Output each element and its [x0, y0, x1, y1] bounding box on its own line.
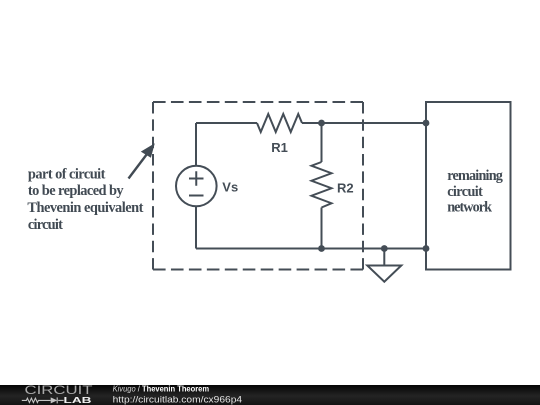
svg-text:Thevenin equivalent: Thevenin equivalent	[27, 200, 143, 216]
svg-text:remaining: remaining	[447, 168, 503, 184]
ground symbol	[367, 266, 401, 282]
svg-text:R2: R2	[337, 181, 354, 196]
voltage source Vs	[176, 166, 217, 207]
svg-text:Vs: Vs	[222, 180, 238, 195]
wire: top rail left segment to R1	[196, 122, 257, 124]
svg-text:part of circuit: part of circuit	[28, 166, 106, 182]
node: junction R2 bottom	[318, 245, 325, 252]
dashed boundary box (part of circuit to be replaced)	[153, 102, 363, 270]
wire: Vs top lead up to top rail	[195, 123, 197, 166]
resistor R1	[257, 114, 302, 132]
wire: Vs bottom lead down to bottom rail	[195, 207, 197, 249]
wire: ground stub	[383, 249, 385, 266]
node: bottom rail into network box	[423, 245, 430, 252]
annotation text: part of circuit to be replaced by Thevenin equivalent circuit	[27, 166, 143, 233]
wire: R2 bottom lead	[321, 208, 323, 249]
svg-text:Kivugo / Thevenin Theorem: Kivugo / Thevenin Theorem	[113, 385, 210, 394]
annotation arrow	[129, 143, 155, 178]
svg-text:network: network	[447, 200, 492, 216]
svg-text:http://circuitlab.com/cx966p4: http://circuitlab.com/cx966p4	[113, 394, 243, 404]
node: junction R1/R2 top	[318, 120, 325, 127]
remaining circuit network box	[426, 102, 511, 270]
node: top rail into network box	[423, 120, 430, 127]
svg-text:R1: R1	[271, 140, 288, 155]
label: remaining circuit network	[447, 168, 503, 216]
node: ground junction	[381, 245, 388, 252]
svg-text:LAB: LAB	[64, 395, 92, 405]
wire: top rail right segment to remaining network	[302, 122, 426, 124]
wire: bottom rail	[196, 248, 426, 250]
svg-text:circuit: circuit	[447, 184, 483, 200]
resistor R2	[312, 162, 332, 208]
footer bar	[0, 385, 540, 405]
svg-text:to be replaced by: to be replaced by	[28, 183, 124, 199]
footer logo resistor squiggle and diode	[22, 397, 64, 403]
wire: R2 top lead	[321, 123, 323, 162]
svg-text:circuit: circuit	[28, 217, 63, 233]
